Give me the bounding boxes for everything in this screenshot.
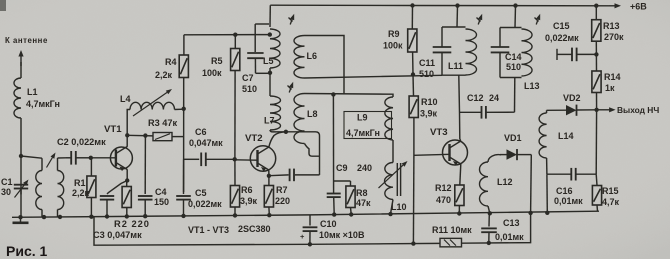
- svg-text:4,7к: 4,7к: [602, 197, 620, 207]
- coupling adjust arrow: [47, 153, 56, 168]
- wire bottom bus: [94, 213, 531, 245]
- label R12: [435, 183, 452, 193]
- label R2 220: [114, 219, 150, 229]
- resistor R2: [122, 181, 131, 217]
- svg-text:С10: С10: [320, 219, 337, 229]
- wire L8 top to L9: [305, 94, 394, 98]
- wire antenna lead: [20, 62, 22, 66]
- inductor L14: [539, 110, 547, 174]
- svg-text:VD1: VD1: [504, 133, 522, 143]
- screen box around L9 label: [344, 112, 392, 139]
- value 4,7мкГн: [346, 128, 380, 138]
- junction rail R1: [89, 215, 93, 219]
- value 510: [419, 69, 434, 79]
- svg-text:С5: С5: [195, 188, 207, 198]
- label L7: [264, 116, 275, 126]
- label С10: [320, 219, 337, 229]
- svg-text:0,022мк: 0,022мк: [188, 199, 222, 209]
- label R7: [276, 185, 288, 195]
- junction rail tank2: [513, 3, 517, 7]
- junction rail antenna: [18, 215, 22, 219]
- svg-text:С3 0,047мк: С3 0,047мк: [93, 230, 142, 240]
- wire VD1 cathode down: [530, 155, 533, 213]
- value 0,022мк: [545, 33, 579, 43]
- transformer winding L5: [270, 29, 280, 71]
- junction VD2 output: [594, 108, 598, 112]
- label К антенне: [5, 36, 48, 45]
- label R10: [421, 97, 438, 107]
- svg-text:220: 220: [275, 196, 290, 206]
- svg-text:L7: L7: [264, 116, 275, 126]
- wire R5 branch vertical: [234, 35, 236, 186]
- svg-text:R14: R14: [604, 72, 621, 82]
- output arrow: [597, 107, 616, 112]
- wire R3 to node A: [172, 136, 184, 138]
- resistor R15: [592, 110, 601, 212]
- junction bus C10: [308, 242, 312, 246]
- capacitor C9: [327, 95, 341, 215]
- svg-text:С7: С7: [242, 73, 254, 83]
- label VD1: [504, 133, 522, 143]
- svg-text:R6: R6: [241, 185, 253, 195]
- svg-text:510: 510: [242, 84, 257, 94]
- wire L8 bottom: [305, 144, 320, 157]
- junction rail C3: [105, 214, 109, 218]
- resistor R12: [455, 185, 464, 213]
- svg-text:R4: R4: [165, 57, 177, 67]
- capacitor C8: [269, 169, 320, 182]
- svg-text:С1: С1: [1, 177, 13, 187]
- wire input node to L2: [21, 156, 42, 158]
- svg-text:R7: R7: [276, 185, 288, 195]
- junction rail C5: [181, 214, 185, 218]
- resistor R6: [230, 186, 239, 216]
- wire L1 to input node: [20, 62, 22, 78]
- svg-text:+6В: +6В: [630, 2, 647, 12]
- junction rail L2: [42, 215, 46, 219]
- diode VD1: [500, 149, 531, 160]
- svg-text:С2 0,022мк: С2 0,022мк: [57, 137, 106, 147]
- svg-text:L11: L11: [448, 61, 463, 71]
- svg-text:0,047мк: 0,047мк: [189, 138, 223, 148]
- label С11: [419, 58, 435, 68]
- wire to VT2 base: [235, 159, 258, 161]
- svg-text:С12: С12: [467, 93, 484, 103]
- svg-text:100к: 100к: [383, 41, 403, 51]
- polarity + of C10: [300, 232, 305, 241]
- svg-text:L1: L1: [27, 87, 38, 97]
- label L11: [448, 61, 463, 71]
- capacitor C10: [303, 215, 318, 244]
- resistor R3: [153, 133, 172, 141]
- svg-text:С14: С14: [505, 52, 522, 62]
- svg-text:L5: L5: [263, 56, 274, 66]
- svg-text:1к: 1к: [605, 83, 615, 93]
- label С16: [556, 186, 573, 196]
- transformer winding L8: [294, 94, 305, 144]
- capacitor C13: [481, 213, 497, 243]
- inductor L13: [522, 29, 533, 76]
- junction VT1 emitter node: [125, 178, 129, 182]
- svg-text:VD2: VD2: [563, 93, 581, 103]
- junction rail R13: [594, 3, 598, 7]
- capacitor C4: [138, 136, 153, 216]
- capacitor C12: [460, 78, 515, 119]
- svg-text:2,2к: 2,2к: [72, 188, 90, 198]
- svg-text:3,9к: 3,9к: [240, 196, 258, 206]
- coupling coil L3: [58, 158, 64, 217]
- caption Рис. 1: [6, 243, 48, 259]
- svg-text:С9: С9: [336, 163, 348, 173]
- label С14: [505, 52, 522, 62]
- label VT3: [430, 127, 448, 138]
- svg-text:Рис. 1: Рис. 1: [6, 243, 48, 259]
- caption 2SC380: [238, 224, 271, 234]
- value 4,7к: [602, 197, 620, 207]
- svg-text:Выход НЧ: Выход НЧ: [617, 105, 659, 115]
- svg-text:R3 47к: R3 47к: [148, 118, 178, 128]
- label L12: [497, 177, 513, 187]
- wire tank2 top stub: [514, 6, 517, 28]
- junction rail R12: [457, 211, 461, 215]
- svg-text:С6: С6: [195, 127, 207, 137]
- value 270к: [604, 32, 624, 42]
- label С7: [242, 73, 254, 83]
- svg-text:L10: L10: [391, 202, 407, 212]
- label VT1: [104, 124, 122, 135]
- label С5: [195, 188, 207, 198]
- value 47к: [356, 198, 371, 208]
- junction rail L14: [545, 211, 549, 215]
- label Выход НЧ: [617, 105, 659, 115]
- wire +6V top rail: [270, 4, 609, 7]
- tank2 frame wires: [500, 28, 522, 78]
- tank1 frame wires: [442, 27, 466, 75]
- label С2 0,022мк: [57, 137, 106, 147]
- junction rail R2: [125, 214, 129, 218]
- svg-text:24: 24: [489, 93, 499, 103]
- junction rail R6: [233, 213, 237, 217]
- label L13: [524, 81, 540, 91]
- core mark L13: [535, 14, 541, 25]
- value 0,01мк: [554, 196, 583, 206]
- label R11 10мк: [432, 225, 472, 235]
- power +6V arrow: [609, 3, 621, 8]
- svg-text:VТ1: VТ1: [104, 124, 122, 135]
- svg-text:R10: R10: [421, 97, 438, 107]
- svg-text:R9: R9: [388, 29, 400, 39]
- label R4: [165, 57, 177, 67]
- svg-text:L6: L6: [307, 51, 318, 61]
- svg-text:47к: 47к: [356, 198, 371, 208]
- resistor R8: [334, 181, 356, 214]
- wire VT2 emitter: [268, 170, 270, 176]
- value 240: [357, 163, 372, 173]
- label L14: [558, 131, 574, 141]
- junction bus C13: [487, 241, 491, 245]
- svg-text:30: 30: [1, 187, 11, 197]
- svg-text:0,01мк: 0,01мк: [554, 196, 583, 206]
- resistor R13: [592, 6, 601, 55]
- inductor L1: [14, 78, 21, 118]
- caption VT1-VT3: [188, 225, 229, 235]
- svg-text:VТ2: VТ2: [245, 133, 263, 144]
- junction rail C4: [143, 214, 147, 218]
- label L4: [120, 94, 131, 104]
- value 2,2к: [155, 70, 173, 80]
- capacitor C1 variable: [14, 156, 29, 217]
- svg-text:0,01мк: 0,01мк: [495, 232, 524, 242]
- svg-text:510: 510: [419, 69, 434, 79]
- svg-text:R2 220: R2 220: [114, 219, 150, 229]
- wire supply bus upper-left: [184, 34, 270, 36]
- label L5: [263, 56, 274, 66]
- label R5: [211, 56, 223, 66]
- svg-text:2,2к: 2,2к: [155, 70, 173, 80]
- label R13: [603, 21, 620, 31]
- capacitor C5: [176, 159, 191, 215]
- svg-text:С11: С11: [419, 58, 435, 68]
- inductor L9: [385, 97, 393, 140]
- value 0,022мк: [188, 199, 222, 209]
- svg-text:С16: С16: [556, 186, 573, 196]
- capacitor C3: [100, 181, 127, 217]
- value 2,2к: [72, 188, 90, 198]
- diode VD2: [547, 105, 597, 116]
- value 30: [1, 187, 11, 197]
- svg-text:L12: L12: [497, 177, 513, 187]
- value 510: [242, 84, 257, 94]
- core mark L11: [477, 14, 483, 25]
- svg-text:R12: R12: [435, 183, 452, 193]
- wire node A vertical: [183, 35, 185, 192]
- wire collector node to C8 branch: [286, 132, 320, 173]
- svg-text:С4: С4: [155, 187, 167, 197]
- label R15: [602, 186, 619, 196]
- coupling coil L2: [36, 158, 42, 217]
- transformer winding L7: [270, 71, 286, 132]
- svg-text:L4: L4: [120, 94, 131, 104]
- junction bus base wire: [411, 241, 415, 245]
- svg-text:+: +: [300, 232, 305, 241]
- svg-text:4,7мкГн: 4,7мкГн: [26, 99, 60, 109]
- capacitor C2: [66, 151, 91, 165]
- junction rail C9: [332, 212, 336, 216]
- value 0,01мк: [495, 232, 524, 242]
- wire L3 to C2: [58, 157, 67, 159]
- capacitor C6: [184, 153, 235, 167]
- inductor L10 variable: [379, 140, 408, 214]
- inductor L4 variable: [127, 89, 183, 135]
- svg-text:3,9к: 3,9к: [420, 109, 438, 119]
- label С3 0,047мк: [93, 230, 142, 240]
- value 24: [489, 93, 499, 103]
- junction rail L12-C13: [488, 211, 492, 215]
- svg-text:С13: С13: [503, 218, 520, 228]
- junction C15-R13-R14: [594, 52, 598, 56]
- capacitor C7: [247, 24, 270, 73]
- svg-text:R5: R5: [211, 56, 223, 66]
- wire VT3 emitter: [460, 164, 461, 185]
- junction VT1 collector node: [125, 133, 129, 137]
- transistor VT1: [110, 147, 132, 172]
- value 3,9к: [240, 196, 258, 206]
- core mark L7-L8: [288, 82, 294, 93]
- wire to VT1 base: [91, 157, 116, 159]
- svg-text:VТ1 - VТ3: VТ1 - VТ3: [188, 225, 229, 235]
- svg-text:R15: R15: [602, 186, 619, 196]
- wire VT1 emitter: [126, 169, 128, 180]
- label +6В: [630, 2, 647, 12]
- junction rail VD1: [528, 211, 532, 215]
- label R8: [356, 188, 368, 198]
- junction rail L3: [58, 215, 62, 219]
- svg-text:L13: L13: [524, 81, 540, 91]
- resistor R7: [264, 176, 273, 215]
- label С13: [503, 218, 520, 228]
- label L1: [27, 87, 38, 97]
- ground symbol: [13, 217, 29, 223]
- capacitor C11: [433, 47, 452, 52]
- svg-text:С15: С15: [553, 21, 570, 31]
- svg-text:240: 240: [357, 163, 372, 173]
- label С6: [195, 127, 207, 137]
- junction C9 branch: [331, 92, 335, 96]
- wire tank1 bottom to VT3 collector: [459, 75, 460, 139]
- wire top-rail left corner down: [269, 5, 271, 27]
- label L8: [307, 109, 318, 119]
- value 4,7мкГн: [26, 99, 60, 109]
- inductor L12: [479, 155, 501, 214]
- label R1: [74, 178, 86, 188]
- wire L1b to input node: [20, 118, 22, 156]
- wire VT1 collector: [126, 135, 128, 147]
- wire to VT3 base: [414, 154, 450, 155]
- value 3,9к: [420, 109, 438, 119]
- svg-text:R8: R8: [356, 188, 368, 198]
- wire L6 top to C9 column: [305, 36, 345, 95]
- junction rail tank1: [455, 3, 459, 7]
- svg-text:L8: L8: [307, 109, 318, 119]
- value 470: [436, 195, 451, 205]
- label С15: [553, 21, 570, 31]
- label С12: [467, 93, 484, 103]
- value 0,047мк: [189, 138, 223, 148]
- resistor R1: [87, 158, 96, 217]
- wire main ground rail: [12, 211, 599, 217]
- label R6: [241, 185, 253, 195]
- node antenna terminal: [18, 50, 23, 62]
- label С9: [336, 163, 348, 173]
- wire VT3 collector: [460, 139, 461, 141]
- value 100к: [202, 68, 222, 78]
- svg-text:VТ3: VТ3: [430, 127, 448, 138]
- svg-text:0,022мк: 0,022мк: [545, 33, 579, 43]
- label L6: [307, 51, 318, 61]
- capacitor C14: [491, 47, 510, 52]
- value 150: [154, 197, 169, 207]
- scan smudge top-left: [0, 0, 6, 11]
- svg-text:L9: L9: [357, 113, 368, 123]
- label L10: [391, 202, 407, 212]
- capacitor C15: [557, 48, 596, 62]
- svg-text:L14: L14: [558, 131, 574, 141]
- svg-text:R11 10мк: R11 10мк: [432, 225, 472, 235]
- transformer winding L6: [294, 36, 305, 79]
- resistor R4: [179, 55, 188, 78]
- label С4: [155, 187, 167, 197]
- junction VT2 emitter node: [267, 174, 271, 178]
- core mark L5-L6: [289, 14, 295, 25]
- value 1к: [605, 83, 615, 93]
- label R3 47к: [148, 118, 178, 128]
- label L9: [357, 113, 368, 123]
- value 100к: [383, 41, 403, 51]
- svg-text:R1: R1: [74, 178, 86, 188]
- transistor VT3: [443, 140, 468, 166]
- wire collector to R3: [127, 134, 153, 137]
- junction rail L10: [388, 212, 392, 216]
- svg-text:4,7мкГн: 4,7мкГн: [346, 128, 380, 138]
- wire L14 bottom to rail: [546, 174, 548, 212]
- label VD2: [563, 93, 581, 103]
- svg-text:К антенне: К антенне: [5, 36, 48, 45]
- junction L5 bottom: [268, 71, 272, 75]
- value 510: [506, 62, 521, 72]
- resistor R10: [409, 75, 418, 156]
- resistor R5: [231, 49, 240, 71]
- transistor VT2: [250, 146, 275, 172]
- resistor R14: [592, 54, 601, 109]
- label VT2: [245, 133, 263, 144]
- resistor R11: [440, 238, 462, 247]
- junction R5 top: [233, 33, 237, 37]
- svg-text:270к: 270к: [604, 32, 624, 42]
- value 220: [275, 196, 290, 206]
- wire tank1 top stub: [456, 6, 459, 27]
- svg-text:510: 510: [506, 62, 521, 72]
- junction C2-R1-base: [89, 156, 93, 160]
- wire VT2 collector: [269, 132, 286, 147]
- junction rail R9: [410, 3, 414, 7]
- svg-text:470: 470: [436, 195, 451, 205]
- resistor R9: [408, 6, 417, 75]
- junction C6-R5-base: [233, 157, 237, 161]
- svg-text:2SC380: 2SC380: [238, 224, 271, 234]
- capacitor C16: [547, 168, 596, 181]
- junction input node: [19, 154, 23, 158]
- wire L6 bottom bias line: [305, 75, 443, 78]
- junction C4 tap: [143, 133, 147, 137]
- junction bus to L5: [268, 32, 272, 36]
- label R9: [388, 29, 400, 39]
- junction rail R7: [267, 213, 271, 217]
- label С1: [1, 177, 13, 187]
- wire base node down to bottom bus: [412, 156, 415, 244]
- junction rail R8: [349, 212, 353, 216]
- value 10мк ×10В: [319, 230, 365, 240]
- junction L4-R4: [182, 107, 186, 111]
- svg-text:10мк ×10В: 10мк ×10В: [319, 230, 365, 240]
- inductor L11: [466, 29, 477, 75]
- label R14: [604, 72, 621, 82]
- junction R9-R10: [411, 72, 415, 76]
- svg-text:R13: R13: [603, 21, 620, 31]
- junction VT2 collector node: [284, 130, 288, 134]
- svg-text:150: 150: [154, 197, 169, 207]
- svg-text:100к: 100к: [202, 68, 222, 78]
